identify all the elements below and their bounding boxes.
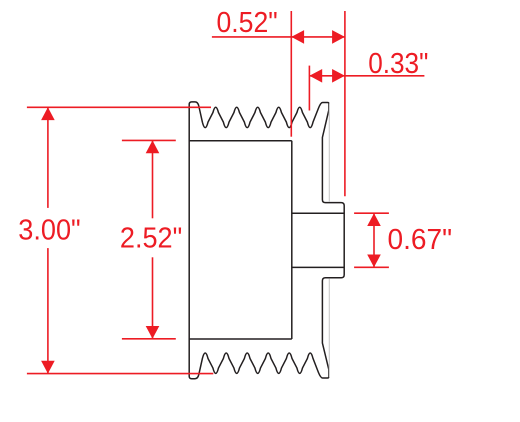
dimension 2.52" extension line bottom: [122, 338, 176, 340]
bore bottom edge line: [292, 266, 344, 268]
dimension 3.00" dimension line lower segment: [47, 248, 49, 374]
dimension 0.52" arrowhead right: [332, 30, 345, 44]
dimension 0.52" leader and dimension line: [212, 36, 345, 38]
dimension 0.52" extension line right: [344, 11, 346, 196]
body right face line: [291, 141, 293, 339]
body top face line: [189, 140, 292, 142]
dimension 3.00" extension line bottom: [27, 373, 213, 375]
dimension 2.52" dimension line upper segment: [152, 140, 154, 218]
dimension 0.67" dimension line: [373, 213, 375, 267]
dimension 0.33" arrowhead right: [332, 69, 345, 83]
dimension 0.67" arrowhead top: [367, 213, 381, 226]
body bottom face line: [189, 338, 292, 340]
bore top edge line: [292, 212, 344, 214]
dimension 0.33" arrowhead left: [309, 69, 322, 83]
dimension 0.52" arrowhead left: [291, 30, 304, 44]
svg-text:0.67": 0.67": [388, 224, 453, 256]
svg-text:2.52": 2.52": [120, 223, 182, 255]
svg-text:3.00": 3.00": [18, 215, 80, 247]
dimension 3.00" arrowhead top: [41, 107, 55, 120]
dimension 2.52" dimension line lower segment: [152, 257, 154, 339]
svg-text:0.33": 0.33": [368, 48, 428, 80]
flange silhouette faint edge bottom: [328, 279, 330, 377]
dimension 0.67" leader top: [354, 212, 389, 214]
dimension 2.52" arrowhead top: [146, 140, 160, 153]
dimension 2.52" extension line top: [122, 139, 176, 141]
pulley silhouette outline: [189, 102, 344, 379]
dimension 3.00" dimension line upper segment: [47, 107, 49, 208]
dimension 0.67" leader bottom: [354, 266, 389, 268]
flange silhouette faint edge top: [328, 103, 330, 202]
dimension 3.00" arrowhead bottom: [41, 361, 55, 374]
dimension 2.52" arrowhead bottom: [146, 326, 160, 339]
dimension 0.67" arrowhead bottom: [367, 255, 381, 268]
dimension 0.33" dimension line and leader: [309, 75, 424, 77]
dimension 0.52" extension line left: [290, 11, 292, 137]
svg-text:0.52": 0.52": [217, 7, 278, 39]
dimension 3.00" extension line top: [27, 106, 211, 108]
dimension 0.33" extension line: [308, 66, 310, 111]
